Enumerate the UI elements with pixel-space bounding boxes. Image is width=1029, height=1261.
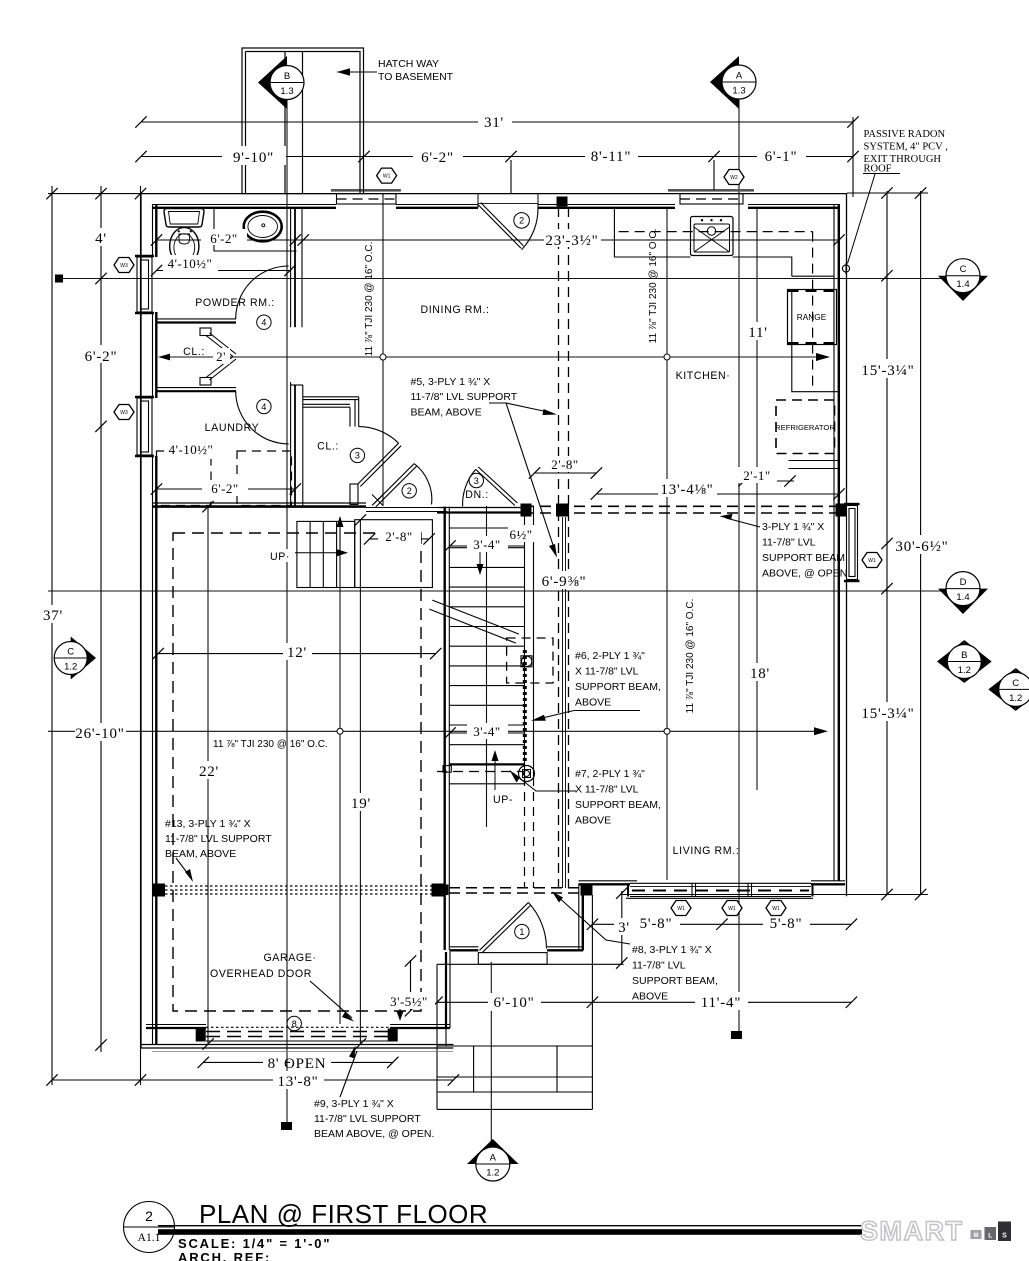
svg-text:3'-4": 3'-4" <box>473 537 500 552</box>
svg-text:19': 19' <box>351 796 371 812</box>
svg-text:UP·: UP· <box>270 551 290 563</box>
svg-text:4: 4 <box>261 318 266 328</box>
svg-text:37': 37' <box>43 608 63 624</box>
svg-text:W3: W3 <box>120 263 128 269</box>
svg-text:KITCHEN·: KITCHEN· <box>676 370 731 382</box>
svg-text:6'-9⅜": 6'-9⅜" <box>542 574 587 590</box>
svg-text:TO BASEMENT: TO BASEMENT <box>378 71 454 83</box>
svg-text:REFRIGERATOR: REFRIGERATOR <box>775 423 835 432</box>
svg-text:6'-10": 6'-10" <box>493 995 534 1011</box>
svg-text:A1.1: A1.1 <box>138 1232 161 1244</box>
svg-text:DN.:: DN.: <box>465 489 489 501</box>
svg-text:W3: W3 <box>120 410 128 416</box>
svg-text:6'-2": 6'-2" <box>85 349 118 365</box>
svg-text:ABOVE: ABOVE <box>632 991 668 1003</box>
svg-text:6'-2": 6'-2" <box>211 481 238 496</box>
svg-text:5'-8": 5'-8" <box>640 916 673 932</box>
svg-text:CL.:: CL.: <box>183 346 205 358</box>
svg-text:11 ⅞" TJI 230 @ 16" O.C.: 11 ⅞" TJI 230 @ 16" O.C. <box>685 599 696 714</box>
svg-text:13'-4⅛": 13'-4⅛" <box>660 482 713 498</box>
svg-text:1.2: 1.2 <box>486 1168 499 1179</box>
svg-text:11-7/8" LVL: 11-7/8" LVL <box>632 960 686 972</box>
svg-text:ROOF: ROOF <box>864 164 892 175</box>
svg-text:SMART: SMART <box>860 1216 964 1246</box>
svg-text:ABOVE: ABOVE <box>575 697 611 709</box>
svg-text:W1: W1 <box>677 906 685 912</box>
svg-text:3: 3 <box>474 476 479 486</box>
svg-text:CL.:: CL.: <box>317 441 339 453</box>
svg-text:W1: W1 <box>868 558 876 564</box>
svg-text:C: C <box>67 647 74 658</box>
svg-text:PLAN @ FIRST FLOOR: PLAN @ FIRST FLOOR <box>199 1199 488 1229</box>
svg-text:11 ⅞" TJI 230 @ 16" O.C.: 11 ⅞" TJI 230 @ 16" O.C. <box>648 229 659 344</box>
svg-text:L: L <box>988 1233 992 1240</box>
svg-text:X 11-7/8" LVL: X 11-7/8" LVL <box>575 666 639 678</box>
svg-text:B: B <box>284 71 290 82</box>
svg-text:8' OPEN: 8' OPEN <box>268 1056 327 1072</box>
svg-text:ABOVE: ABOVE <box>575 815 611 827</box>
svg-text:#8, 3-PLY 1 ¾" X: #8, 3-PLY 1 ¾" X <box>632 944 712 956</box>
svg-text:M: M <box>974 1233 979 1239</box>
svg-text:15'-3¼": 15'-3¼" <box>861 363 914 379</box>
svg-text:18': 18' <box>750 666 770 682</box>
svg-text:6'-2": 6'-2" <box>210 231 237 246</box>
svg-text:RANGE: RANGE <box>797 312 827 322</box>
svg-text:11 ⅞" TJI 230 @ 16" O.C.: 11 ⅞" TJI 230 @ 16" O.C. <box>364 242 375 357</box>
svg-text:DINING RM.:: DINING RM.: <box>421 304 490 316</box>
svg-text:POWDER RM.:: POWDER RM.: <box>195 297 275 309</box>
svg-text:4: 4 <box>261 402 266 412</box>
svg-text:ARCH. REF:: ARCH. REF: <box>178 1250 271 1261</box>
svg-text:4'-10½": 4'-10½" <box>168 256 213 271</box>
svg-text:SUPPORT BEAM: SUPPORT BEAM <box>762 552 845 564</box>
svg-text:3'-5½": 3'-5½" <box>390 994 428 1009</box>
svg-text:D: D <box>960 577 967 588</box>
svg-text:11-7/8" LVL SUPPORT: 11-7/8" LVL SUPPORT <box>411 391 518 403</box>
svg-text:X 11-7/8" LVL: X 11-7/8" LVL <box>575 784 639 796</box>
svg-text:12': 12' <box>287 645 307 661</box>
svg-text:3'-4": 3'-4" <box>473 724 500 739</box>
svg-text:3': 3' <box>618 920 630 936</box>
svg-text:22': 22' <box>199 764 219 780</box>
svg-text:PASSIVE RADON: PASSIVE RADON <box>864 129 946 140</box>
svg-text:BEAM, ABOVE: BEAM, ABOVE <box>165 848 236 860</box>
svg-text:UP-: UP- <box>493 794 513 806</box>
svg-text:3-PLY 1 ¾" X: 3-PLY 1 ¾" X <box>762 521 824 533</box>
svg-text:5'-8": 5'-8" <box>770 916 803 932</box>
svg-text:C: C <box>1012 678 1019 689</box>
svg-text:1.3: 1.3 <box>280 86 293 97</box>
svg-text:2: 2 <box>145 1208 153 1224</box>
svg-text:2: 2 <box>519 216 524 226</box>
svg-text:SYSTEM, 4" PCV ,: SYSTEM, 4" PCV , <box>864 142 948 153</box>
svg-text:SUPPORT BEAM,: SUPPORT BEAM, <box>632 975 718 987</box>
svg-text:15'-3¼": 15'-3¼" <box>861 706 914 722</box>
svg-text:#5, 3-PLY 1 ¾" X: #5, 3-PLY 1 ¾" X <box>411 376 491 388</box>
svg-text:9'-10": 9'-10" <box>233 150 274 166</box>
svg-text:11': 11' <box>748 325 768 341</box>
svg-text:30'-6½": 30'-6½" <box>895 539 948 555</box>
svg-text:1.3: 1.3 <box>732 86 745 97</box>
svg-text:2'-8": 2'-8" <box>551 457 578 472</box>
svg-text:2': 2' <box>216 349 226 364</box>
svg-text:ABOVE, @ OPEN.: ABOVE, @ OPEN. <box>762 568 850 580</box>
svg-text:6'-1": 6'-1" <box>765 149 798 165</box>
svg-text:1: 1 <box>519 927 524 937</box>
svg-text:#9, 3-PLY 1 ¾" X: #9, 3-PLY 1 ¾" X <box>314 1098 394 1110</box>
svg-text:8: 8 <box>292 1019 297 1029</box>
svg-text:1.2: 1.2 <box>64 662 77 673</box>
svg-text:26'-10": 26'-10" <box>75 726 124 742</box>
svg-text:11 ⅞" TJI 230 @ 16" O.C.: 11 ⅞" TJI 230 @ 16" O.C. <box>213 739 328 750</box>
svg-text:GARAGE·: GARAGE· <box>263 952 316 964</box>
svg-text:1.4: 1.4 <box>956 592 969 603</box>
svg-text:C: C <box>960 264 967 275</box>
svg-text:8'-11": 8'-11" <box>591 149 632 165</box>
svg-text:OVERHEAD DOOR: OVERHEAD DOOR <box>210 968 312 980</box>
svg-text:13'-8": 13'-8" <box>277 1074 318 1090</box>
svg-text:1.4: 1.4 <box>956 279 969 290</box>
svg-text:LAUNDRY: LAUNDRY <box>205 422 260 434</box>
svg-text:#6, 2-PLY 1 ¾": #6, 2-PLY 1 ¾" <box>575 650 645 662</box>
svg-text:11'-4": 11'-4" <box>701 995 742 1011</box>
svg-text:6½": 6½" <box>509 527 532 542</box>
svg-text:4'-10½": 4'-10½" <box>169 442 214 457</box>
svg-text:W1: W1 <box>383 174 391 180</box>
svg-text:W1: W1 <box>728 906 736 912</box>
svg-text:6'-2": 6'-2" <box>421 150 454 166</box>
svg-text:2: 2 <box>407 486 412 496</box>
svg-text:31': 31' <box>484 115 504 131</box>
svg-text:A: A <box>490 1153 497 1164</box>
svg-text:BEAM, ABOVE: BEAM, ABOVE <box>411 407 482 419</box>
svg-text:3: 3 <box>355 451 360 461</box>
svg-text:LIVING RM.:: LIVING RM.: <box>673 845 740 857</box>
svg-text:S: S <box>1002 1233 1007 1240</box>
svg-text:SUPPORT BEAM,: SUPPORT BEAM, <box>575 681 661 693</box>
svg-text:SUPPORT BEAM,: SUPPORT BEAM, <box>575 799 661 811</box>
svg-text:2'-1": 2'-1" <box>743 468 770 483</box>
svg-text:11-7/8" LVL: 11-7/8" LVL <box>762 537 816 549</box>
svg-text:W2: W2 <box>730 175 738 181</box>
svg-text:1.2: 1.2 <box>1009 693 1022 704</box>
svg-text:BEAM ABOVE, @ OPEN.: BEAM ABOVE, @ OPEN. <box>314 1128 434 1140</box>
svg-text:4': 4' <box>95 231 107 247</box>
svg-text:#13, 3-PLY 1 ¾" X: #13, 3-PLY 1 ¾" X <box>165 818 251 830</box>
svg-text:1.2: 1.2 <box>958 665 971 676</box>
svg-text:W1: W1 <box>772 906 780 912</box>
svg-text:B: B <box>961 650 967 661</box>
svg-text:11-7/8" LVL SUPPORT: 11-7/8" LVL SUPPORT <box>314 1113 421 1125</box>
svg-text:A: A <box>736 71 743 82</box>
svg-text:11-7/8" LVL SUPPORT: 11-7/8" LVL SUPPORT <box>165 833 272 845</box>
svg-text:2'-8": 2'-8" <box>385 529 412 544</box>
svg-text:HATCH WAY: HATCH WAY <box>378 58 439 70</box>
svg-text:#7, 2-PLY 1 ¾": #7, 2-PLY 1 ¾" <box>575 768 645 780</box>
svg-text:SCALE: 1/4" = 1'-0": SCALE: 1/4" = 1'-0" <box>178 1236 331 1251</box>
svg-text:23'-3½": 23'-3½" <box>545 233 598 249</box>
